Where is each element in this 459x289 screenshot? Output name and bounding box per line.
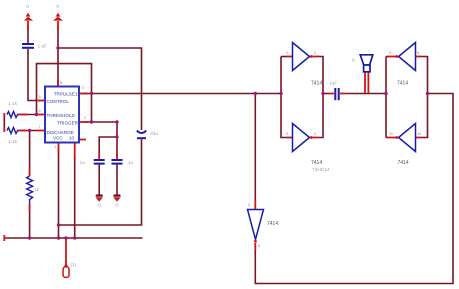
svg-text:1: 1 [54,145,56,149]
svg-text:DISCHARGE: DISCHARGE [47,130,74,135]
svg-text:6: 6 [39,109,41,113]
svg-text:-0: -0 [114,203,119,209]
svg-text:1u: 1u [80,160,86,166]
svg-text:CONTROL: CONTROL [47,99,70,104]
svg-text:1.1k: 1.1k [8,139,18,145]
svg-text:33u: 33u [150,131,158,137]
svg-text:2: 2 [314,51,316,55]
svg-text:74HC14: 74HC14 [312,167,330,173]
svg-text:3: 3 [286,132,288,136]
svg-text:7414: 7414 [311,160,322,166]
svg-text:1uF: 1uF [329,81,337,87]
svg-text:4: 4 [314,132,316,136]
svg-text:5: 5 [248,203,250,207]
svg-text:8: 8 [352,58,355,64]
svg-text:TRIGGER: TRIGGER [57,121,79,126]
svg-text:7414: 7414 [397,81,408,87]
svg-text:THRESHOLD: THRESHOLD [47,113,76,118]
svg-text:7414: 7414 [311,81,322,87]
svg-text:0: 0 [56,4,59,10]
svg-text:7414: 7414 [398,160,409,166]
svg-text:2: 2 [84,116,86,120]
svg-text:.1u: .1u [127,160,134,166]
svg-text:1.1k: 1.1k [8,101,18,107]
svg-text:7414: 7414 [267,221,278,227]
svg-text:TRPULSE1: TRPULSE1 [54,92,78,97]
svg-text:10: 10 [417,132,421,136]
svg-text:(1): (1) [71,262,77,268]
svg-text:1 uF: 1 uF [38,44,48,50]
svg-text:VCC: VCC [53,136,63,141]
svg-text:3: 3 [82,86,84,90]
svg-text:6: 6 [258,244,260,248]
svg-text:1k: 1k [34,187,40,193]
svg-text:5: 5 [39,95,41,99]
svg-text:-0: -0 [97,203,102,209]
svg-text:1: 1 [286,51,288,55]
svg-text:8: 8 [417,51,419,55]
svg-text:9: 9 [389,51,391,55]
svg-text:10: 10 [69,136,75,141]
svg-text:11: 11 [389,132,393,136]
svg-text:0: 0 [26,4,29,10]
svg-text:8: 8 [60,81,62,85]
svg-text:7: 7 [39,125,41,129]
